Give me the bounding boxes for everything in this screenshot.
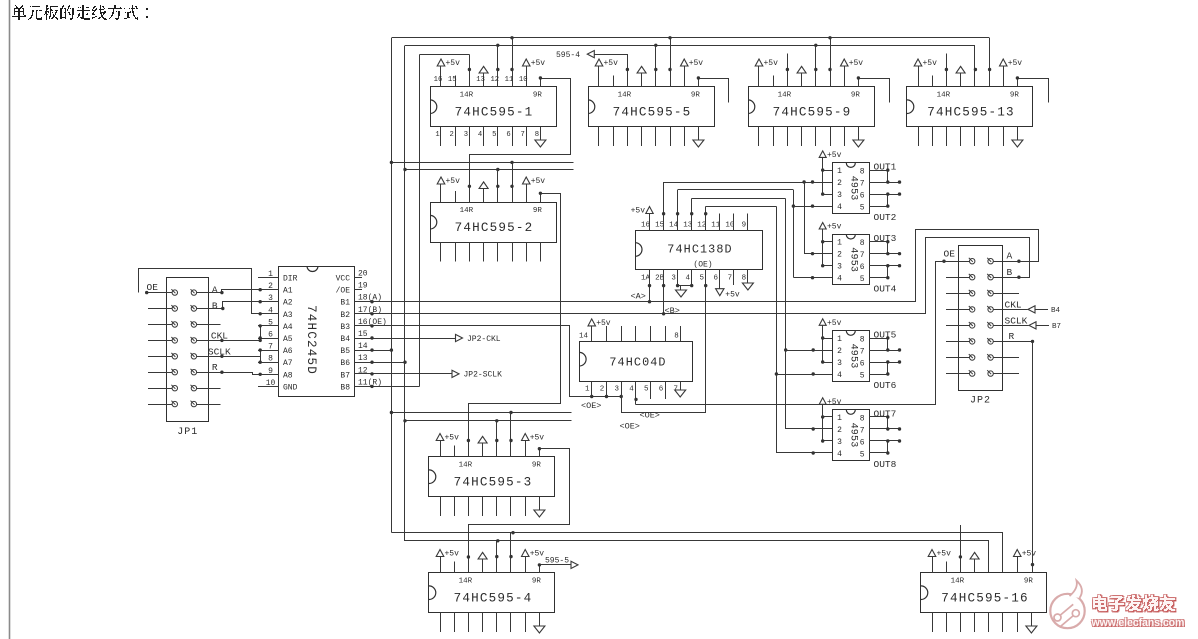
wire net serial-R (vertical trunk x=419.5) [420, 55, 470, 387]
wire net SCLK bottom bus y=533 [391, 532, 1003, 534]
IC 74HC595-5 body [588, 87, 715, 127]
svg-text:74HC595-1: 74HC595-1 [455, 106, 534, 120]
wire net OE from 74HC245D B3 to 74HC04D pin1 [355, 324, 622, 396]
svg-text:DIR: DIR [283, 275, 298, 284]
svg-text:OUT7: OUT7 [874, 408, 897, 419]
svg-text:1: 1 [837, 239, 842, 248]
wire 74HC138D Y1 pin14 to 4953-1 pin4 and 4953-2 pin4 [676, 190, 833, 280]
svg-text:A5: A5 [283, 335, 293, 344]
svg-text:R: R [1009, 331, 1015, 342]
svg-text:74HC595-3: 74HC595-3 [454, 476, 533, 490]
junction dots above 74HC595-16 [959, 555, 1035, 566]
svg-text:A: A [212, 285, 218, 296]
svg-text:3: 3 [614, 386, 619, 394]
transistor Q 4953 (OUT5/OUT6) body [833, 331, 870, 382]
pin numbers of 74HC595-1 [434, 76, 539, 139]
power +5V right of 74HC595-16 [1014, 550, 1037, 574]
svg-text:+5v: +5v [446, 59, 461, 68]
pin15 stub of 74HC595-13 [932, 76, 934, 88]
svg-text:A3: A3 [283, 311, 293, 320]
svg-text:5: 5 [860, 451, 865, 460]
power flag pin13 of 74HC595-4 [478, 552, 487, 573]
svg-text:<A>: <A> [631, 292, 646, 302]
svg-text:VCC: VCC [336, 275, 351, 284]
wire 74HC138D pin5 enable from 74HC04D [621, 270, 707, 413]
74HC04D pin6 stub [665, 382, 667, 399]
JP2 left pin stubs [936, 262, 970, 374]
connector JP2 body [959, 246, 1003, 407]
svg-text:9R: 9R [691, 91, 701, 99]
svg-text:74HC595-5: 74HC595-5 [613, 106, 692, 120]
wire 74HC595-3 pin11 to SCLK branch bus [510, 413, 512, 458]
wire net SCLK top bus y=38 [391, 37, 989, 39]
svg-text:OUT1: OUT1 [874, 161, 897, 172]
svg-text:+5v: +5v [445, 550, 460, 559]
svg-text:16: 16 [434, 76, 443, 84]
svg-text:OUT2: OUT2 [874, 212, 897, 223]
bottom pin stubs of 74HC595-5 [599, 127, 699, 147]
watermark elecfans logo circle [1050, 581, 1084, 629]
svg-text:<B>: <B> [665, 306, 680, 316]
wire net B from 74HC245D B2 to JP2 B [355, 238, 1030, 316]
JP1 row7 stub [197, 388, 221, 390]
JP1 pin circles [171, 289, 196, 407]
power +5V right of 74HC595-3 [522, 434, 545, 458]
output wires OUT7 [869, 415, 901, 430]
svg-text:4: 4 [629, 386, 634, 394]
svg-text:3: 3 [464, 131, 468, 139]
svg-text:74HC595-4: 74HC595-4 [454, 592, 533, 606]
wire 74HC595-13 pin9 dangling cascade hook [1016, 76, 1049, 102]
svg-text:<OE>: <OE> [640, 411, 660, 421]
svg-text:B2: B2 [340, 311, 350, 320]
power flag pin13 of 74HC595-16 [970, 552, 979, 573]
svg-text:8: 8 [535, 131, 539, 139]
output wires OUT3 [869, 240, 901, 255]
wire JP1 row6 R to 74HC245D A8 [197, 371, 279, 376]
wire 74HC138D pin1A to net A [648, 270, 651, 304]
output wires OUT2 [869, 192, 901, 207]
power +5V right of 74HC595-13 [1000, 59, 1023, 87]
wire JP1 row1 A to 74HC245D A1 [197, 288, 279, 294]
svg-text:8: 8 [860, 168, 865, 177]
pin15 stub of 74HC595-5 [613, 76, 615, 88]
power +5V at 74HC04D pin14 [588, 319, 611, 328]
svg-text:4953: 4953 [848, 176, 859, 201]
wire 74HC595-9 pin14 dangling input [787, 54, 789, 88]
wire 74HC595-1 pin11 to SCLK bus [512, 38, 514, 87]
wire 74HC245D B7 to JP2-SCLK arrow [354, 370, 502, 379]
svg-text:7: 7 [521, 131, 525, 139]
svg-text:+5v: +5v [1022, 550, 1037, 559]
svg-text:74HC595-9: 74HC595-9 [773, 106, 852, 120]
svg-text:5: 5 [644, 386, 649, 394]
svg-text:+5v: +5v [827, 223, 842, 232]
power +5V right of 74HC595-4 [522, 550, 545, 574]
ground below pin8 of 74HC595-5 [693, 140, 704, 147]
power +5V right of 74HC595-1 [523, 59, 546, 87]
74HC138D bottom pin numbers [641, 274, 746, 282]
74HC245D VCC pin20 stub [354, 277, 362, 279]
IC U2 74HC245D body [279, 266, 355, 397]
svg-text:A: A [1007, 251, 1013, 262]
svg-text:B4: B4 [340, 335, 350, 344]
wire 74HC595-5 pin11 to SCLK bus [670, 38, 672, 87]
svg-text:14R: 14R [618, 91, 632, 99]
wire JP1 row2 B to 74HC245D A2 [197, 300, 279, 310]
power +5V left of 74HC595-16 [928, 550, 951, 574]
wire JP1 row5 SCLK to 74HC245D A6/A7 [197, 348, 279, 364]
74HC04D pin5 stub [650, 382, 652, 399]
svg-text:OUT5: OUT5 [874, 329, 897, 340]
bottom pin stubs of 74HC595-3 [441, 497, 540, 517]
wire 74HC595-9 pin12 to RCLK bus [815, 45, 817, 87]
bottom pin stubs of 74HC595-2 [441, 242, 541, 262]
svg-text:OUT4: OUT4 [874, 284, 897, 295]
svg-text:3: 3 [837, 359, 842, 368]
svg-text:3: 3 [837, 191, 842, 200]
svg-text:8: 8 [742, 274, 747, 282]
wire 74HC595-16 pin14 dangling input [960, 525, 962, 573]
svg-text:OE: OE [147, 282, 159, 293]
svg-text:SCLK: SCLK [1005, 315, 1028, 326]
svg-text:JP2: JP2 [970, 396, 991, 407]
junction dots above 74HC595-9 [786, 68, 832, 71]
svg-text:9R: 9R [532, 461, 542, 469]
svg-text:8: 8 [860, 239, 865, 248]
svg-text:B7: B7 [340, 371, 350, 380]
svg-text:B6: B6 [340, 359, 350, 368]
svg-text:2: 2 [837, 426, 842, 435]
power +5V left of 74HC595-1 [437, 59, 460, 87]
power +5V left of 74HC595-3 [436, 434, 459, 458]
svg-text:2: 2 [837, 251, 842, 260]
power +5V left of 74HC595-4 [436, 550, 459, 574]
output wires OUT8 [869, 439, 901, 454]
power +5V right of 74HC595-5 [681, 59, 704, 87]
svg-text:OE: OE [944, 249, 956, 260]
svg-text:B: B [212, 300, 218, 311]
pin15 stub of 74HC595-9 [773, 76, 775, 88]
svg-text:6: 6 [860, 439, 865, 448]
ground at 74HC138D pin8 [742, 270, 753, 290]
power flag pin13 of 74HC595-3 [478, 436, 487, 457]
JP1 left pin stubs [146, 293, 172, 405]
wire net RCLK branch bus y=421 (row 3) [405, 420, 572, 422]
junction dots above 74HC595-2 [468, 185, 514, 188]
wire 74HC245D B8 to serial-R trunk [354, 385, 420, 388]
svg-text:+5v: +5v [445, 434, 460, 443]
pin15 stub of 74HC595-2 [455, 191, 457, 203]
power flag pin13 of 74HC595-2 [479, 182, 488, 203]
page left border [9, 0, 11, 639]
off-page arrow 595-4 feeding 74HC595-5 pin14 [556, 51, 628, 88]
JP2 pin circles [969, 258, 994, 377]
svg-text:15: 15 [358, 330, 368, 339]
svg-text:4953: 4953 [848, 344, 859, 369]
svg-text:6: 6 [506, 131, 510, 139]
power +5V at 4953 OUT3 pins1,3 [819, 223, 841, 268]
ground below pin8 of 74HC595-13 [1012, 140, 1023, 147]
svg-text:B: B [1007, 267, 1013, 278]
label SCLK at JP2 and arrow from B7 [993, 315, 1061, 331]
JP2 row8 stub [993, 373, 1019, 375]
svg-text:7: 7 [860, 427, 865, 436]
svg-text:595-5: 595-5 [545, 557, 569, 566]
wire net SCLK bus (vertical trunk x=391) [391, 38, 393, 533]
svg-text:A2: A2 [283, 299, 293, 308]
wire 74HC245D B5 to SCLK bus [354, 348, 391, 351]
ground below pin8 of 74HC595-16 [1026, 626, 1037, 633]
junction dots net SCLK [390, 36, 832, 534]
ground below pin8 of 74HC595-9 [853, 140, 864, 147]
svg-text:SCLK: SCLK [208, 347, 231, 358]
power +5V left of 74HC595-5 [595, 59, 618, 87]
svg-text:4: 4 [837, 203, 842, 212]
junction dots above 74HC595-1 [468, 68, 514, 71]
svg-text:+5v: +5v [530, 550, 545, 559]
svg-text:2: 2 [450, 131, 454, 139]
svg-text:8: 8 [860, 415, 865, 424]
svg-text:5: 5 [860, 372, 865, 381]
svg-text:7: 7 [728, 274, 733, 282]
svg-text:9: 9 [742, 222, 747, 230]
svg-text:B4: B4 [1051, 307, 1061, 315]
JP1 row3 stub [197, 324, 221, 326]
svg-text:5: 5 [699, 274, 704, 282]
svg-text:4: 4 [837, 275, 842, 284]
IC 74HC595-16 body [921, 573, 1047, 613]
svg-text:B3: B3 [340, 323, 350, 332]
IC U3 74HC138D body [635, 231, 762, 270]
svg-text:OUT8: OUT8 [874, 459, 897, 470]
junction dots above 74HC595-5 [626, 68, 672, 71]
svg-text:14R: 14R [951, 577, 965, 585]
74HC04D pins1-3 stubs to OE wire [590, 382, 623, 398]
bottom pin stubs of 74HC595-4 [441, 613, 540, 633]
svg-text:14R: 14R [460, 91, 474, 99]
svg-text:14R: 14R [459, 461, 473, 469]
svg-text:4: 4 [478, 131, 482, 139]
power +5V right of 74HC595-9 [841, 59, 864, 87]
watermark text 电子发烧友 [1094, 596, 1176, 612]
svg-text:2: 2 [600, 386, 605, 394]
wire 74HC138D Y2 pin13 to 4953-3 pin2 and 4953-4 pin2 [690, 198, 833, 430]
bottom pin stubs of 74HC595-13 [919, 127, 1018, 147]
wire net SCLK drop to 74HC595-13 pin11 [989, 38, 991, 87]
wire 74HC595-5 pin9 dangling cascade hook [697, 76, 729, 102]
bottom pin stubs of 74HC595-9 [759, 127, 859, 147]
svg-text:14R: 14R [937, 91, 951, 99]
svg-text:B5: B5 [340, 347, 350, 356]
svg-text:+5v: +5v [827, 398, 842, 407]
svg-text:14R: 14R [460, 207, 474, 215]
svg-text:2: 2 [837, 347, 842, 356]
svg-text:2: 2 [837, 179, 842, 188]
pin15 stub of 74HC595-16 [946, 562, 948, 574]
svg-text:74HC595-13: 74HC595-13 [927, 106, 1015, 120]
transistor Q 4953 (OUT7/OUT8) body [833, 410, 870, 461]
ground at 74HC04D pin7 [675, 382, 686, 397]
svg-text:GND: GND [283, 383, 298, 392]
ground below pin8 of 74HC595-4 [534, 626, 545, 633]
transistor Q 4953 (OUT3/OUT4) body [833, 235, 870, 285]
svg-text:3: 3 [837, 438, 842, 447]
74HC04D top pin stubs [592, 326, 681, 341]
svg-text:+5v: +5v [764, 59, 779, 68]
wire 74HC595-2 pin14 from cascade [469, 154, 471, 202]
svg-text:+5v: +5v [596, 319, 611, 328]
wire net RCLK top bus y=45 [405, 45, 975, 47]
svg-text:5: 5 [860, 204, 865, 213]
svg-text:74HC595-16: 74HC595-16 [941, 592, 1029, 606]
svg-text:4953: 4953 [848, 247, 859, 272]
JP2 row3 right stub [993, 293, 1019, 295]
power +5V left of 74HC595-13 [914, 59, 937, 87]
74HC245D /OE pin19 stub [354, 289, 362, 291]
svg-text:74HC138D: 74HC138D [667, 243, 732, 257]
svg-text:3: 3 [671, 274, 676, 282]
svg-text:R: R [212, 362, 218, 373]
wire 74HC04D pin4 to JP2 OE [634, 260, 946, 405]
svg-text:A8: A8 [283, 371, 293, 380]
svg-text:CKL: CKL [211, 331, 228, 342]
power +5V at 4953 OUT1 pins1,3 [819, 151, 841, 196]
pin15 stub of 74HC595-3 [454, 446, 456, 458]
svg-text:JP2-SCLK: JP2-SCLK [464, 371, 503, 380]
wire 74HC595-5 pin12 to RCLK bus [655, 45, 657, 87]
svg-text:A7: A7 [283, 359, 293, 368]
wire 74HC138D Y3 pin12 to 4953-3 pin4 and 4953-4 pin4 [704, 206, 833, 454]
74HC245D left pin numbers [258, 270, 279, 388]
output wires OUT4 [869, 264, 901, 279]
power +5V right of 74HC595-2 [523, 177, 546, 203]
74HC138D top pin numbers [641, 222, 746, 230]
svg-text:(OE): (OE) [693, 261, 712, 270]
bottom pin stubs of 74HC595-1 [441, 127, 541, 147]
junction dots above 74HC595-4 [467, 555, 513, 559]
wire net A from 74HC245D B1 to JP2 A [355, 230, 1039, 304]
svg-text:5: 5 [492, 131, 496, 139]
wire 74HC595-9 pin11 to SCLK bus [830, 38, 832, 87]
JP1 row8 stub [197, 404, 221, 406]
label CKL at JP2 and arrow from B4 [993, 299, 1060, 315]
svg-text:JP1: JP1 [177, 427, 198, 438]
pin15 stub of 74HC595-4 [454, 562, 456, 574]
svg-text:8: 8 [674, 333, 679, 341]
svg-text:+5v: +5v [725, 291, 740, 300]
svg-text:9R: 9R [851, 91, 861, 99]
wire net SCLK branch bus y=412 (row 3) [391, 412, 571, 414]
watermark text www.elecfans.com [1090, 616, 1186, 630]
svg-text:+5v: +5v [849, 59, 864, 68]
power +5V tap at 74HC138D pin6 [716, 270, 740, 300]
svg-text:A1: A1 [283, 287, 293, 296]
svg-text:+5v: +5v [937, 550, 952, 559]
svg-text:+5v: +5v [604, 59, 619, 68]
wire net RCLK bus (vertical trunk x=405) [404, 45, 406, 541]
wire 74HC595-2 pin12 to RCLK branch bus [497, 170, 499, 203]
power +5V left of 74HC595-2 [437, 177, 460, 203]
wire net SCLK branch bus y=162 (row 2) [391, 162, 573, 164]
svg-text:6: 6 [860, 360, 865, 369]
wire 74HC595-3 pin12 to RCLK branch bus [496, 421, 498, 457]
wire 74HC595-2 pin11 to SCLK branch bus [512, 162, 514, 202]
junction dots above 74HC595-13 [945, 68, 992, 71]
svg-text:1: 1 [837, 335, 842, 344]
wire JP2 row6 R to 74HC595-16 pin9 [993, 340, 1034, 573]
svg-text:14R: 14R [459, 577, 473, 585]
wire 74HC04D pin3 to 74HC138D pin5 [621, 382, 623, 413]
IC 74HC595-9 body [748, 87, 875, 127]
output wires OUT1 [869, 168, 901, 183]
svg-text:8: 8 [860, 336, 865, 345]
svg-text:B8: B8 [340, 383, 350, 392]
svg-text:4: 4 [837, 371, 842, 380]
svg-text:+5v: +5v [531, 59, 546, 68]
wire 74HC245D B4 to JP2-CKL arrow [354, 334, 501, 343]
wire 74HC138D pin2B to net B [662, 270, 665, 316]
junction dots net RCLK [403, 44, 817, 543]
JP2 row7 stub [993, 357, 1019, 359]
svg-text:+5v: +5v [631, 207, 646, 216]
svg-text:13: 13 [476, 76, 485, 84]
wire JP1 OE loop to 74HC245D A3 [139, 269, 279, 316]
svg-text:6: 6 [659, 386, 664, 394]
svg-text:A4: A4 [283, 323, 293, 332]
svg-text:B1: B1 [340, 299, 350, 308]
ground below pin8 of 74HC595-1 [535, 140, 546, 147]
svg-text:+5v: +5v [827, 151, 842, 160]
svg-text:1: 1 [837, 167, 842, 176]
pin15 stub of 74HC595-1 [455, 76, 457, 88]
svg-text:7: 7 [860, 180, 865, 189]
output wires OUT5 [869, 336, 901, 351]
wire net RCLK branch bus y=169 (row 2) [405, 169, 574, 171]
svg-text:595-4: 595-4 [556, 51, 580, 60]
wire 74HC138D Y0 pin15 to 4953-1 pin2 and 4953-2 pin2 [662, 180, 833, 255]
transistor Q 4953 (OUT1/OUT2) body [833, 163, 870, 214]
svg-text:5: 5 [268, 318, 273, 327]
74HC245D right pin labels [336, 275, 351, 393]
IC U4 74HC04D body [579, 342, 692, 382]
wire net RCLK rise to 74HC595-16 pin12 [988, 541, 990, 573]
svg-text:3: 3 [837, 263, 842, 272]
output wires OUT6 [869, 360, 901, 375]
svg-text:OUT6: OUT6 [874, 380, 897, 391]
svg-text:4953: 4953 [848, 423, 859, 448]
74HC04D bottom pin numbers [585, 386, 678, 394]
IC 74HC595-4 body [429, 573, 555, 613]
svg-text:9R: 9R [532, 577, 542, 585]
svg-text:74HC245D: 74HC245D [304, 305, 318, 375]
svg-text:6: 6 [860, 263, 865, 272]
svg-text:<OE>: <OE> [581, 401, 601, 411]
wire 74HC595-4 pin11 to SCLK bottom bus [510, 533, 512, 573]
wire 74HC245D B6 to RCLK bus [354, 361, 405, 364]
IC 74HC595-1 body [430, 87, 557, 127]
IC 74HC595-13 body [907, 87, 1033, 127]
connector JP1 body [167, 278, 209, 439]
title text 单元板的走线方式: [12, 5, 148, 20]
wire JP1 row4 CKL to 74HC245D A4/A5 [197, 324, 279, 342]
wire 74HC595-1 pin12 to RCLK bus [497, 45, 499, 87]
svg-text:+5v: +5v [827, 319, 842, 328]
ground below pin8 of 74HC595-3 [534, 510, 545, 517]
off-page arrow 595-5 from 74HC595-4 pin9 [538, 557, 578, 574]
IC 74HC595-2 body [430, 203, 557, 243]
74HC138D pin10 stub [733, 214, 735, 231]
